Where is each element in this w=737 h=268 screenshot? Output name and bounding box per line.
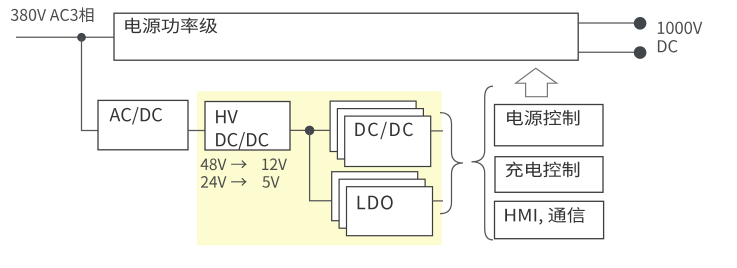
terminal DC return xyxy=(634,46,647,59)
terminal 1000V xyxy=(634,17,647,30)
wire DC/DC stack to brace xyxy=(431,130,443,132)
wire junction down to LDO stack xyxy=(310,130,352,200)
node AC input junction xyxy=(77,33,86,42)
block U6 电源控制 xyxy=(495,105,604,146)
highlight region low-voltage rails xyxy=(197,91,442,245)
brace right group rails xyxy=(440,113,463,214)
wire 1000V output xyxy=(578,22,640,24)
block U2 AC/DC converter xyxy=(98,100,188,149)
value label 48V to 12V xyxy=(201,158,287,170)
wire DC output xyxy=(578,51,640,53)
wire junction down to AC/DC xyxy=(82,37,99,130)
wire AC/DC to HV DC/DC xyxy=(188,130,205,132)
block U5 LDO stack xyxy=(332,172,433,236)
block U8 HMI 通信 xyxy=(495,201,604,238)
net label 1000V DC xyxy=(658,22,703,53)
brace left group loads xyxy=(472,86,494,240)
block arrow control to power stage xyxy=(516,68,557,96)
node rail junction xyxy=(305,126,315,136)
block U4 DC/DC stack xyxy=(330,101,431,166)
block U3 HV DC/DC converter xyxy=(205,102,290,151)
wire HV DC/DC to DC/DC stack xyxy=(290,129,350,131)
block U1 电源功率级 power stage xyxy=(114,13,578,60)
value label 24V to 5V xyxy=(201,176,280,188)
block U7 充电控制 xyxy=(495,157,603,193)
net label 380V AC3相 xyxy=(11,7,94,22)
wire LDO stack to brace xyxy=(433,200,444,202)
wire AC input xyxy=(16,36,114,38)
